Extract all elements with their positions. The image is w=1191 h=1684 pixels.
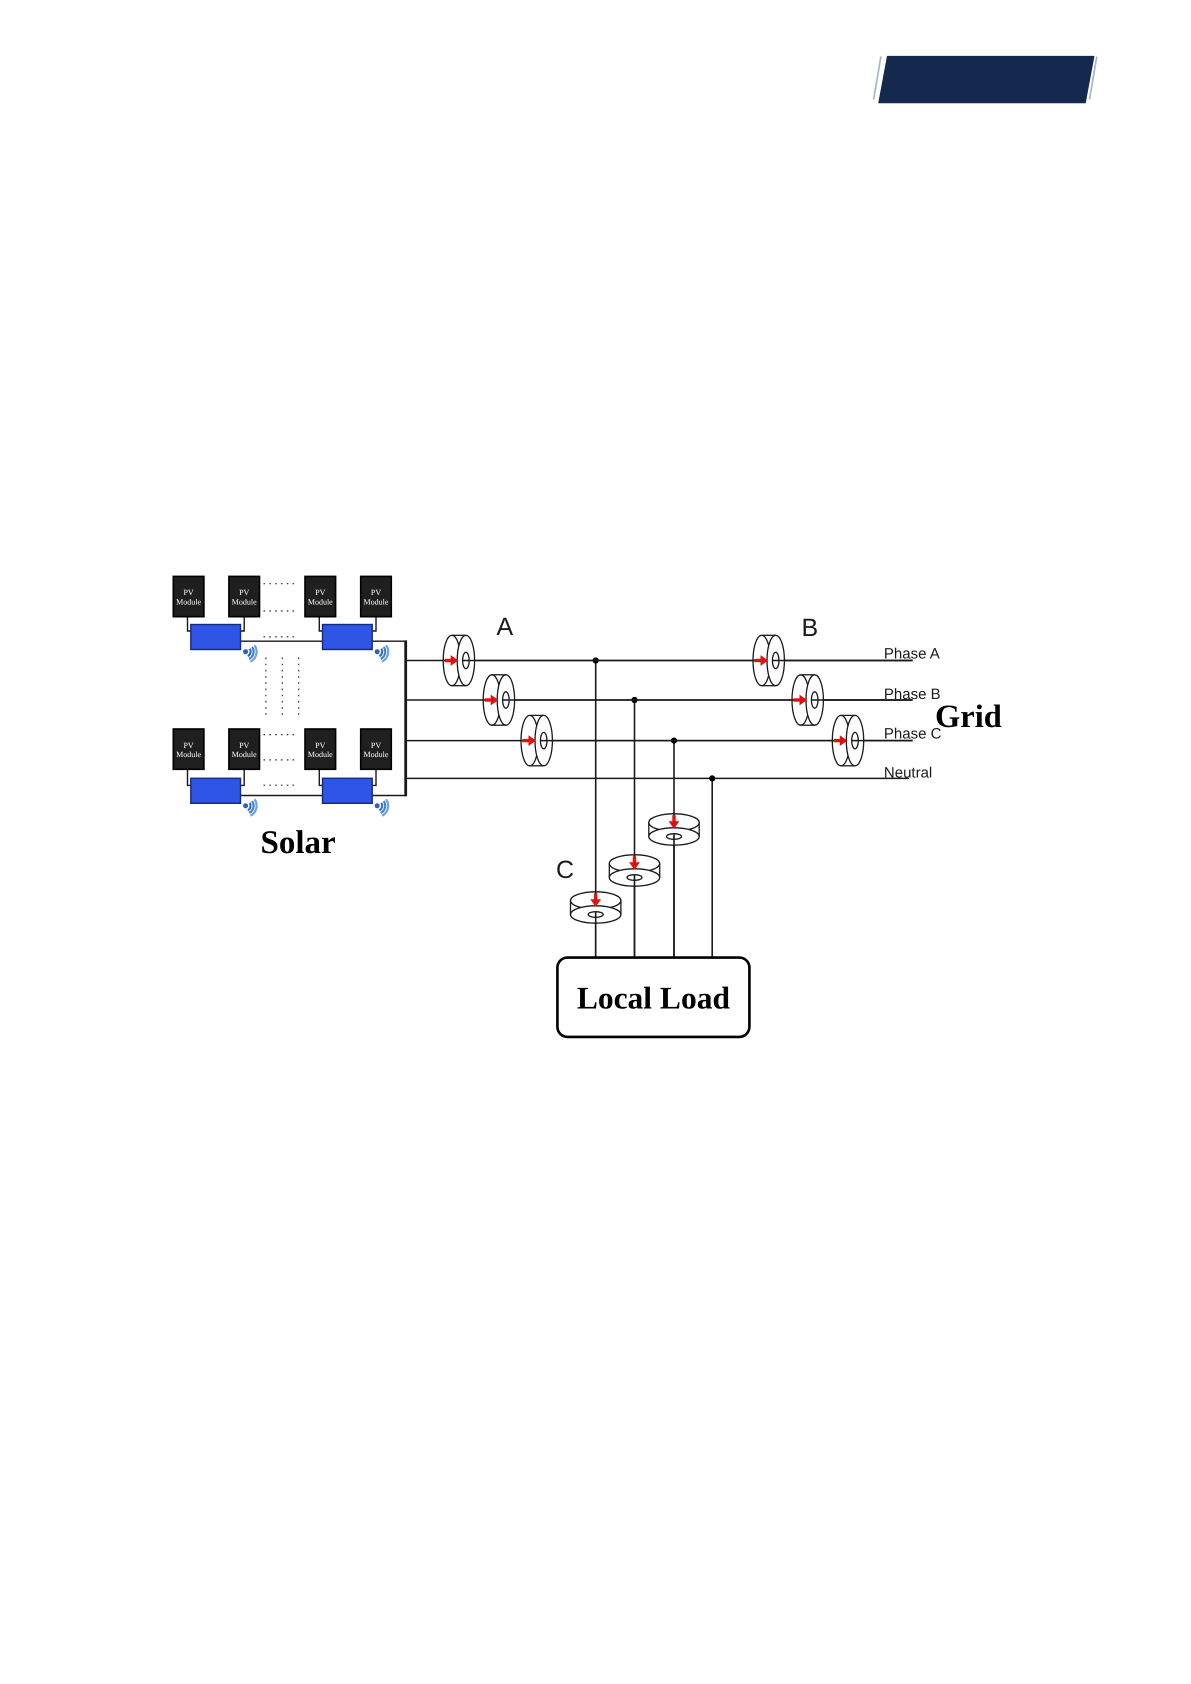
svg-text:Phase C: Phase C <box>884 725 942 742</box>
inverter INV4 <box>323 778 373 803</box>
dotted continuation row1 middle <box>264 610 298 612</box>
svg-text:Phase B: Phase B <box>884 686 941 703</box>
wire drop phase A to local load <box>595 661 597 958</box>
wire phase A <box>406 660 913 662</box>
node junction phase B tap <box>631 697 637 703</box>
wire phase C <box>406 740 913 742</box>
svg-text:Neutral: Neutral <box>884 765 932 782</box>
PV module M1 <box>173 576 204 616</box>
dotted vertical continuation right <box>298 658 300 718</box>
wire phase C after CT B3 <box>852 740 913 742</box>
wire drop phase B to local load <box>634 700 636 958</box>
svg-text:A: A <box>497 613 514 641</box>
svg-text:Grid: Grid <box>935 699 1002 735</box>
dotted continuation row2 bottom <box>264 784 298 786</box>
CT C3 on load drop phase C <box>649 814 699 845</box>
PV module M4 <box>361 576 392 616</box>
wire drop phase C after CT C3 <box>673 834 675 958</box>
wire drop phase C to local load <box>673 741 675 958</box>
CT C1 on load drop phase A <box>571 892 621 923</box>
wire drop neutral to local load <box>711 778 713 957</box>
dotted continuation row2 top <box>264 734 298 736</box>
CT A2 on phase B <box>483 675 514 725</box>
wire phase A after CT A1 <box>463 660 913 662</box>
dotted continuation row2 middle <box>264 759 298 761</box>
svg-text:Solar: Solar <box>261 825 336 861</box>
wire drop phase B after CT C2 <box>634 875 636 958</box>
dotted vertical continuation left <box>265 658 267 718</box>
svg-text:C: C <box>556 856 574 884</box>
svg-text:Phase A: Phase A <box>884 646 940 663</box>
inverter INV2 <box>323 625 373 650</box>
wire PV module M5 to inverter INV3 <box>188 769 193 785</box>
wire PV module M2 to inverter INV1 <box>239 617 244 631</box>
PV module M3 <box>305 576 336 616</box>
wire PV module M8 to inverter INV4 <box>371 769 376 785</box>
PV module M8 <box>361 729 392 769</box>
node junction phase C tap <box>671 738 677 744</box>
wire drop phase A after CT C1 <box>595 912 597 958</box>
wifi icon on INV3 <box>241 797 258 817</box>
CT B3 on phase C <box>832 715 863 765</box>
inverter INV3 <box>191 778 241 803</box>
bus vertical collector <box>404 640 407 796</box>
wire phase C after CT A3 <box>541 740 913 742</box>
wifi icon on INV2 <box>373 643 390 663</box>
wire phase B after CT A2 <box>503 699 913 701</box>
CT A1 on phase A <box>443 635 474 685</box>
wifi icon on INV1 <box>241 643 258 663</box>
wire PV module M7 to inverter INV4 <box>319 769 324 785</box>
svg-text:B: B <box>802 614 819 642</box>
PV module M7 <box>305 729 336 769</box>
wifi icon on INV4 <box>373 797 390 817</box>
node junction phase A tap <box>593 657 599 663</box>
node junction neutral tap <box>709 775 715 781</box>
svg-text:Local Load: Local Load <box>577 981 731 1016</box>
dotted continuation row1 bottom <box>264 636 298 638</box>
CT C2 on load drop phase B <box>609 855 659 886</box>
wire phase B <box>406 699 913 701</box>
PV module M6 <box>229 729 260 769</box>
wire PV module M1 to inverter INV1 <box>188 617 193 631</box>
wire PV module M6 to inverter INV3 <box>239 769 244 785</box>
wire phase A after CT B1 <box>773 660 913 662</box>
PV module M5 <box>173 729 204 769</box>
wire inverter row 1 output to bus <box>241 640 406 642</box>
wire PV module M4 to inverter INV2 <box>371 617 376 631</box>
wire PV module M3 to inverter INV2 <box>319 617 324 631</box>
wire phase B after CT B2 <box>812 699 913 701</box>
dotted vertical continuation middle <box>281 658 283 718</box>
logo banner left accent line <box>874 57 881 100</box>
logo banner right accent line <box>1090 57 1097 100</box>
local load box <box>557 958 749 1037</box>
logo banner parallelogram <box>878 56 1094 103</box>
wire neutral <box>406 777 909 779</box>
CT A3 on phase C <box>521 715 552 765</box>
PV module M2 <box>229 576 260 616</box>
inverter INV1 <box>191 625 241 650</box>
dotted continuation row1 top <box>264 583 298 585</box>
CT B1 on phase A <box>753 635 784 685</box>
CT B2 on phase B <box>792 675 823 725</box>
wire inverter row 2 output to bus <box>241 795 406 797</box>
